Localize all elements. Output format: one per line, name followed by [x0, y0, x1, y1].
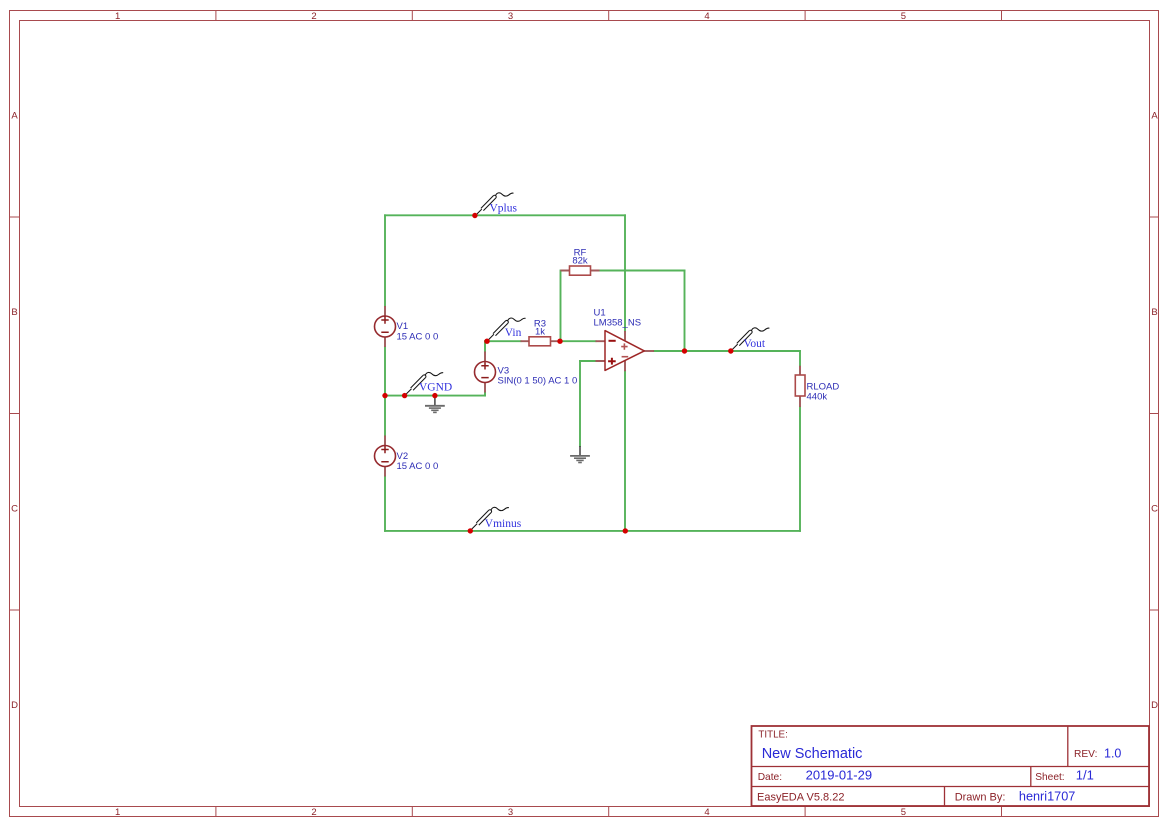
junction dot Vout	[728, 348, 733, 353]
svg-text:Vplus: Vplus	[490, 203, 518, 215]
svg-text:4: 4	[704, 807, 709, 818]
ground (op-amp + input)	[570, 446, 590, 463]
svg-text:EasyEDA V5.8.22: EasyEDA V5.8.22	[757, 791, 844, 803]
net flag Vin	[484, 318, 525, 344]
triangle body	[605, 331, 644, 371]
svg-text:A: A	[1151, 111, 1158, 122]
wire Vplus to V1 top	[384, 215, 386, 306]
wire output corner to RLOAD top	[799, 351, 801, 366]
svg-text:REV:: REV:	[1074, 749, 1097, 760]
junction dot Vplus	[472, 213, 477, 218]
svg-text:1k: 1k	[535, 327, 545, 338]
svg-text:1/1: 1/1	[1076, 767, 1094, 782]
column ticks bottom	[216, 807, 1002, 817]
svg-text:B: B	[11, 307, 17, 318]
row ticks right	[1150, 217, 1160, 610]
junction dot R3/RF node	[557, 339, 562, 344]
voltage source V2	[375, 436, 439, 477]
svg-text:B: B	[1151, 307, 1157, 318]
resistor R3	[521, 319, 560, 346]
junction dot Vminus/opamp V- node	[623, 528, 628, 533]
svg-text:15 AC 0 0: 15 AC 0 0	[397, 332, 439, 343]
svg-text:2: 2	[311, 11, 316, 22]
V+ marker	[621, 343, 627, 349]
svg-text:C: C	[1151, 504, 1158, 515]
svg-text:4: 4	[704, 11, 709, 22]
svg-text:15 AC 0 0: 15 AC 0 0	[397, 461, 439, 472]
power pin stubs	[624, 331, 626, 371]
svg-text:Vminus: Vminus	[485, 518, 522, 530]
svg-text:82k: 82k	[572, 256, 588, 267]
svg-text:New Schematic: New Schematic	[762, 746, 863, 762]
wire corner to R3 left	[485, 340, 521, 342]
wire RF right to feedback corner	[600, 270, 685, 272]
wire Vminus rail	[385, 530, 800, 532]
wire V2 bottom to Vminus rail	[384, 477, 386, 531]
wire to opamp non-inverting input	[580, 360, 596, 362]
svg-text:Date:: Date:	[758, 772, 782, 783]
wire feedback vertical	[684, 271, 686, 352]
svg-text:C: C	[11, 504, 18, 515]
resistor RLOAD	[795, 366, 839, 407]
wire VGND rail	[385, 395, 485, 397]
svg-text:Sheet:: Sheet:	[1035, 772, 1064, 783]
column ticks top	[216, 11, 1002, 21]
svg-text:D: D	[1151, 700, 1158, 711]
svg-text:henri1707: henri1707	[1019, 789, 1075, 803]
voltage source V3	[475, 352, 578, 393]
wire Vplus rail to opamp V+	[624, 215, 626, 331]
wire V1 bottom to VGND rail	[384, 347, 386, 396]
svg-text:2: 2	[311, 807, 316, 818]
svg-text:VGND: VGND	[419, 382, 452, 394]
svg-text:Vout: Vout	[744, 338, 766, 350]
svg-text:SIN(0 1 50) AC 1 0: SIN(0 1 50) AC 1 0	[498, 375, 578, 386]
resistor RF	[561, 247, 600, 275]
net flag Vplus	[472, 193, 517, 218]
svg-text:5: 5	[901, 807, 906, 818]
junction dot Vin	[484, 339, 489, 344]
wire RLOAD bottom to Vminus rail	[799, 407, 801, 531]
svg-text:A: A	[11, 111, 18, 122]
wire Vplus rail	[385, 214, 625, 216]
junction dot output/RF node	[682, 348, 687, 353]
row ticks left	[10, 217, 20, 610]
junction dot ground tap	[432, 393, 437, 398]
net flag Vminus	[468, 507, 522, 533]
wire opamp V- to Vminus rail	[624, 371, 626, 531]
svg-text:V1: V1	[397, 321, 409, 332]
wire RF left leg	[560, 271, 562, 342]
junction dot Vminus	[468, 528, 473, 533]
wire output rail	[654, 350, 800, 352]
svg-text:Drawn By:: Drawn By:	[955, 791, 1006, 803]
svg-text:1: 1	[115, 11, 120, 22]
input pin stubs	[596, 341, 606, 361]
svg-text:Vin: Vin	[505, 327, 522, 339]
wire non-inverting input to ground	[579, 361, 581, 446]
svg-text:5: 5	[901, 11, 906, 22]
svg-text:D: D	[11, 700, 18, 711]
inverting input minus	[609, 340, 616, 342]
wire VGND rail to V2 top	[384, 396, 386, 436]
voltage source V1	[375, 306, 439, 347]
wire R3 right to opamp inverting input	[560, 340, 596, 342]
svg-text:3: 3	[508, 807, 513, 818]
net flag VGND	[402, 372, 452, 398]
junction dot VGND corner	[382, 393, 387, 398]
svg-text:TITLE:: TITLE:	[758, 730, 787, 741]
svg-text:440k: 440k	[807, 392, 828, 403]
output pin stub	[644, 350, 654, 352]
ground (VGND rail)	[425, 396, 445, 412]
wire V3 bottom stub	[484, 393, 486, 396]
wire V3 top to corner	[484, 341, 486, 351]
V- marker	[622, 356, 629, 358]
non-inverting input plus	[608, 358, 616, 365]
net flag Vout	[728, 328, 769, 354]
svg-text:1: 1	[115, 807, 120, 818]
junction dot VGND	[402, 393, 407, 398]
svg-text:1.0: 1.0	[1104, 746, 1121, 760]
svg-text:LM358_NS: LM358_NS	[594, 318, 642, 329]
op-amp U1	[594, 308, 655, 372]
svg-text:2019-01-29: 2019-01-29	[806, 767, 873, 782]
svg-text:3: 3	[508, 11, 513, 22]
